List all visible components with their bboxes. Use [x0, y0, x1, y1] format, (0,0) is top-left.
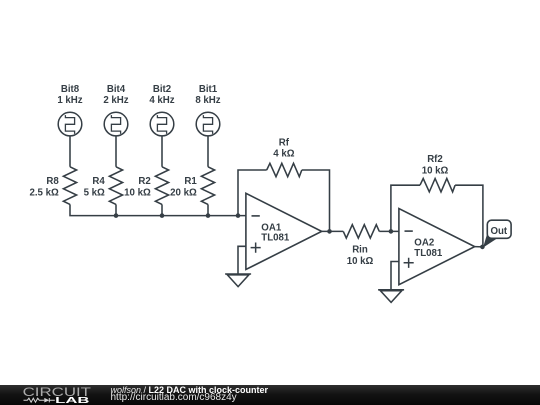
- svg-text:Rf2: Rf2: [427, 154, 443, 165]
- feedback wire Rf2 loop right: [455, 185, 483, 247]
- resistor Rin: [343, 225, 379, 238]
- OA1 minus pin mark: [252, 215, 260, 217]
- wire Bit1 to R1: [207, 136, 209, 167]
- CircuitLab logo: [0, 385, 100, 405]
- ground G2: [378, 290, 404, 303]
- junction node R1/bus: [206, 213, 211, 218]
- resistor R4: [109, 167, 122, 205]
- svg-text:R1: R1: [184, 176, 197, 187]
- junction node R2/bus: [160, 213, 165, 218]
- svg-text:LAB: LAB: [55, 396, 89, 405]
- clock source V-Bit4: [104, 112, 128, 136]
- wire OA1 plus to ground: [238, 246, 246, 274]
- ground G1: [225, 274, 251, 287]
- svg-text:8 kHz: 8 kHz: [195, 95, 220, 106]
- OA2 minus pin mark: [405, 230, 413, 232]
- svg-text:5 kΩ: 5 kΩ: [84, 188, 105, 199]
- svg-text:R4: R4: [92, 176, 105, 187]
- svg-text:Rin: Rin: [352, 245, 368, 256]
- wire Rin to OA2: [379, 230, 399, 232]
- wire Bit4 to R4: [115, 136, 117, 167]
- resistor Rf: [267, 163, 302, 176]
- resistor R1: [201, 167, 214, 205]
- svg-text:10 kΩ: 10 kΩ: [347, 256, 374, 267]
- clock source V-Bit2: [150, 112, 174, 136]
- feedback wire Rf loop right: [302, 170, 330, 231]
- svg-text:R2: R2: [138, 176, 150, 187]
- op-amp OA2: [399, 209, 475, 285]
- OA2 plus pin mark: [404, 258, 414, 268]
- svg-text:Bit2: Bit2: [153, 84, 171, 95]
- resistor R2: [155, 167, 168, 205]
- junction node OA1 out/feedback: [327, 229, 332, 234]
- feedback wire Rf loop left: [238, 170, 267, 216]
- svg-text:4 kHz: 4 kHz: [149, 95, 174, 106]
- svg-text:TL081: TL081: [261, 233, 290, 244]
- Out flag box: [487, 220, 511, 238]
- wire R1 to bus: [207, 204, 209, 215]
- junction node OA2 minus/feedback: [389, 229, 394, 234]
- svg-text:Bit8: Bit8: [61, 84, 80, 95]
- Out flag pointer: [483, 234, 497, 248]
- wire OA2 output: [475, 246, 483, 248]
- junction node OA1 minus/feedback: [236, 213, 241, 218]
- wire R2 to bus: [161, 204, 163, 215]
- junction node Out: [480, 245, 485, 250]
- svg-text:Bit4: Bit4: [107, 84, 126, 95]
- svg-text:4 kΩ: 4 kΩ: [273, 149, 294, 160]
- svg-text:2 kHz: 2 kHz: [103, 95, 128, 106]
- wire Bit8 to R8: [69, 136, 71, 167]
- svg-text:TL081: TL081: [414, 248, 443, 259]
- resistor R8: [63, 167, 76, 205]
- wire Bit2 to R2: [161, 136, 163, 167]
- svg-text:Rf: Rf: [279, 138, 290, 149]
- svg-text:10 kΩ: 10 kΩ: [124, 188, 151, 199]
- wire R4 to bus: [115, 204, 117, 215]
- footer bar: [0, 385, 540, 405]
- svg-text:Out: Out: [490, 226, 507, 237]
- OA1 plus pin mark: [251, 243, 261, 253]
- wire OA2 plus to ground: [391, 262, 399, 290]
- clock source V-Bit8: [58, 112, 82, 136]
- svg-text:1 kHz: 1 kHz: [57, 95, 82, 106]
- clock source V-Bit1: [196, 112, 220, 136]
- wire OA1 output: [322, 230, 344, 232]
- svg-text:20 kΩ: 20 kΩ: [170, 188, 197, 199]
- feedback wire Rf2 loop left: [391, 185, 420, 231]
- svg-text:10 kΩ: 10 kΩ: [422, 165, 449, 176]
- svg-text:R8: R8: [46, 176, 59, 187]
- wire R8 to bus: [70, 204, 246, 215]
- junction node R4/bus: [114, 213, 119, 218]
- op-amp OA1: [246, 193, 322, 269]
- svg-text:2.5 kΩ: 2.5 kΩ: [29, 188, 59, 199]
- resistor Rf2: [420, 179, 455, 192]
- svg-text:Bit1: Bit1: [199, 84, 218, 95]
